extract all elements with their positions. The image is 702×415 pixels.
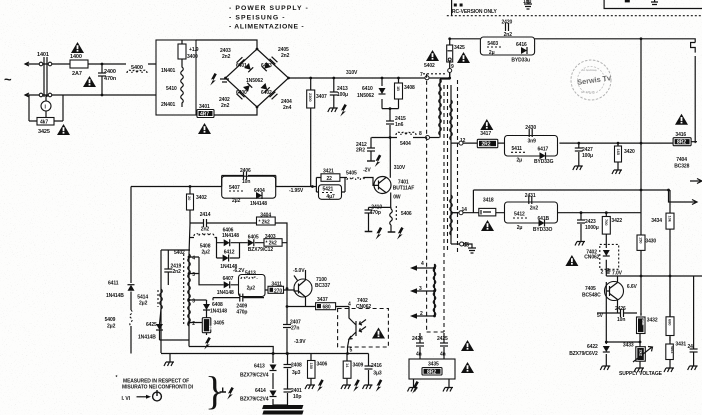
svg-text:2: 2 (192, 321, 195, 327)
svg-text:BYD33O: BYD33O (533, 227, 553, 233)
svg-text:1N5062: 1N5062 (357, 93, 374, 99)
svg-text:2426: 2426 (615, 306, 626, 312)
svg-text:3406: 3406 (317, 362, 328, 368)
svg-text:2μ2: 2μ2 (107, 324, 116, 330)
svg-text:1N4148: 1N4148 (250, 201, 267, 207)
svg-text:700: 700 (604, 219, 609, 226)
svg-text:5409: 5409 (105, 317, 116, 323)
svg-text:6411: 6411 (108, 281, 119, 287)
svg-text:5404: 5404 (400, 141, 411, 147)
svg-text:3437: 3437 (317, 297, 328, 303)
svg-text:BYD33u: BYD33u (511, 58, 530, 64)
svg-text:680: 680 (668, 319, 673, 326)
svg-text:2k2: 2k2 (639, 350, 644, 357)
svg-text:BC337: BC337 (315, 283, 330, 289)
svg-text:3μ3: 3μ3 (373, 371, 382, 377)
svg-text:2425: 2425 (437, 336, 448, 342)
svg-text:1n6: 1n6 (395, 122, 404, 128)
svg-text:1N401: 1N401 (161, 68, 176, 74)
svg-text:1N414B: 1N414B (138, 335, 156, 341)
svg-text:15: 15 (464, 242, 470, 248)
svg-text:2424: 2424 (412, 336, 423, 342)
svg-text:2430: 2430 (525, 125, 536, 131)
svg-text:6413: 6413 (254, 364, 265, 370)
svg-text:2n2: 2n2 (281, 53, 290, 59)
svg-text:8: 8 (419, 131, 422, 137)
svg-text:2n2: 2n2 (530, 205, 539, 211)
svg-text:BC548C: BC548C (582, 293, 601, 299)
svg-text:6407: 6407 (223, 276, 234, 282)
svg-text:8R2: 8R2 (427, 369, 436, 375)
svg-text:10n: 10n (242, 179, 250, 185)
svg-text:18μ: 18μ (523, 0, 531, 5)
svg-text:1N414B: 1N414B (106, 293, 124, 299)
svg-text:2414: 2414 (200, 212, 211, 218)
svg-text:2n2: 2n2 (222, 54, 231, 60)
svg-text:2n2: 2n2 (221, 103, 230, 109)
svg-text:10n: 10n (617, 317, 625, 323)
svg-text:1N4148: 1N4148 (210, 309, 227, 315)
svg-text:BZX79/C12: BZX79/C12 (248, 247, 274, 253)
svg-text:1N4148: 1N4148 (217, 290, 234, 296)
svg-text:5421: 5421 (323, 187, 334, 193)
svg-text:6403: 6403 (261, 63, 272, 69)
svg-text:6404: 6404 (254, 188, 265, 194)
svg-text:22: 22 (327, 176, 333, 182)
svg-text:- ALIMENTAZIONE -: - ALIMENTAZIONE - (229, 24, 304, 31)
svg-text:RC-VERSION ONLY: RC-VERSION ONLY (452, 9, 497, 15)
svg-text:2n4: 2n4 (283, 105, 292, 111)
svg-text:4: 4 (421, 261, 424, 267)
svg-text:0W: 0W (393, 195, 401, 201)
svg-text:6408: 6408 (212, 302, 223, 308)
svg-text:tel. 123-45: tel. 123-45 (581, 90, 595, 94)
svg-text:6B3: 6B3 (670, 346, 675, 354)
svg-text:3434: 3434 (651, 218, 662, 224)
svg-text:*: * (116, 375, 118, 381)
svg-text:1000μ: 1000μ (585, 225, 599, 231)
svg-text:3: 3 (419, 286, 422, 292)
svg-text:10k: 10k (668, 216, 673, 223)
svg-text:-1.95V: -1.95V (289, 188, 304, 194)
svg-text:2A7: 2A7 (72, 71, 82, 77)
svg-text:6405: 6405 (248, 235, 259, 241)
svg-text:5406: 5406 (401, 211, 412, 217)
svg-text:3430: 3430 (645, 239, 656, 245)
svg-text:4n: 4n (416, 351, 422, 357)
svg-text:3409: 3409 (353, 363, 364, 369)
svg-text:* 2k2: * 2k2 (266, 241, 277, 247)
svg-text:1N4148: 1N4148 (222, 233, 239, 239)
svg-text:270: 270 (274, 288, 282, 294)
svg-text:1N5062: 1N5062 (246, 78, 263, 84)
svg-text:470p: 470p (370, 210, 381, 216)
svg-text:SUPPLY VOLTAGE: SUPPLY VOLTAGE (619, 371, 663, 377)
svg-text:CN062: CN062 (356, 304, 371, 310)
svg-text:6412: 6412 (224, 249, 235, 255)
svg-text:2416: 2416 (371, 363, 382, 369)
svg-text:* 2k2: * 2k2 (259, 220, 270, 226)
svg-text:2406: 2406 (240, 168, 251, 174)
svg-text:CN062: CN062 (584, 254, 599, 260)
svg-text:2μ: 2μ (517, 225, 523, 231)
svg-text:3μ3: 3μ3 (292, 370, 301, 376)
svg-text:6401: 6401 (236, 63, 247, 69)
svg-text:7404: 7404 (676, 157, 687, 163)
svg-text:3418: 3418 (483, 198, 494, 204)
svg-text:BUT11AF: BUT11AF (393, 186, 415, 192)
svg-text:2μ2: 2μ2 (139, 301, 148, 307)
svg-text:3432: 3432 (647, 318, 658, 324)
svg-text:3n9: 3n9 (528, 138, 537, 144)
svg-text:5413: 5413 (245, 271, 256, 277)
svg-text:2n2: 2n2 (201, 227, 210, 233)
svg-text:3405: 3405 (214, 321, 225, 327)
svg-text:6402: 6402 (261, 90, 272, 96)
svg-text:3435: 3435 (428, 362, 439, 368)
svg-text:470n: 470n (104, 76, 117, 82)
svg-text:6410: 6410 (362, 86, 373, 92)
svg-text:5412: 5412 (514, 212, 525, 218)
svg-text:310V: 310V (346, 70, 358, 76)
svg-text:MISURATO NEI CONFRONTI DI: MISURATO NEI CONFRONTI DI (122, 385, 194, 391)
svg-text:5V: 5V (597, 313, 604, 319)
svg-text:3416: 3416 (675, 132, 686, 138)
svg-text:3400: 3400 (187, 54, 198, 60)
svg-text:}: } (205, 368, 224, 413)
svg-text:~: ~ (4, 72, 12, 87)
svg-text:5405: 5405 (346, 171, 357, 177)
svg-text:3402: 3402 (196, 195, 207, 201)
svg-text:2n2: 2n2 (173, 269, 182, 275)
svg-text:2μ2: 2μ2 (232, 198, 241, 204)
svg-text:2μ2: 2μ2 (247, 285, 256, 291)
svg-text:3425: 3425 (38, 129, 50, 135)
svg-text:4k7: 4k7 (40, 120, 48, 126)
svg-text:2408: 2408 (291, 363, 302, 369)
svg-text:3431: 3431 (675, 341, 686, 347)
svg-text:8R2: 8R2 (677, 140, 686, 146)
svg-text:3420: 3420 (624, 149, 635, 155)
svg-text:165: 165 (616, 149, 621, 156)
svg-text:2: 2 (420, 311, 423, 317)
svg-text:-5.0V: -5.0V (293, 268, 305, 274)
svg-text:BZX79/C6V2: BZX79/C6V2 (569, 351, 598, 357)
svg-text:3425: 3425 (454, 45, 465, 51)
svg-text:6422: 6422 (587, 344, 598, 350)
svg-text:I. VI: I. VI (122, 396, 131, 402)
svg-text:+1.9: +1.9 (189, 47, 199, 53)
svg-text:310V: 310V (394, 165, 406, 171)
svg-text:2N401: 2N401 (161, 102, 176, 108)
svg-text:2μ: 2μ (517, 157, 523, 163)
svg-text:3422: 3422 (611, 218, 622, 224)
svg-text:-3.9V: -3.9V (294, 339, 306, 345)
svg-text:5403: 5403 (487, 41, 498, 47)
svg-text:1400: 1400 (70, 54, 82, 60)
svg-text:470p: 470p (236, 309, 247, 315)
svg-text:ul. testowa: ul. testowa (582, 68, 597, 72)
svg-text:BZX79/C2V4: BZX79/C2V4 (240, 397, 269, 403)
svg-text:4R7: 4R7 (200, 112, 209, 118)
svg-text:2: 2 (601, 269, 604, 275)
svg-text:3417: 3417 (480, 131, 491, 137)
svg-text:5410: 5410 (166, 86, 177, 92)
svg-text:2420: 2420 (502, 20, 513, 26)
svg-text:680: 680 (323, 305, 331, 311)
svg-text:5411: 5411 (512, 146, 523, 152)
svg-text:150: 150 (639, 237, 644, 244)
svg-text:2R2: 2R2 (356, 148, 365, 154)
svg-text:-2V: -2V (363, 167, 371, 173)
svg-text:4μ7: 4μ7 (326, 194, 335, 200)
svg-text:7405: 7405 (585, 286, 596, 292)
svg-text:5407: 5407 (229, 185, 240, 191)
svg-text:3407: 3407 (316, 94, 327, 100)
svg-text:6416: 6416 (516, 42, 527, 48)
svg-text:5: 5 (350, 348, 353, 354)
svg-text:2μ2: 2μ2 (202, 250, 211, 256)
svg-text:100μ: 100μ (337, 92, 348, 98)
svg-text:3408: 3408 (404, 85, 415, 91)
svg-text:6414: 6414 (255, 388, 266, 394)
svg-text:3433: 3433 (623, 343, 634, 349)
svg-text:- POWER SUPPLY -: - POWER SUPPLY - (229, 5, 309, 12)
svg-text:7: 7 (420, 72, 423, 78)
svg-text:- SPEISUNG -: - SPEISUNG - (229, 15, 286, 22)
svg-text:BC328: BC328 (674, 164, 689, 170)
svg-text:2R2: 2R2 (482, 142, 491, 148)
svg-text:2431: 2431 (525, 193, 536, 199)
svg-text:-6.2V: -6.2V (233, 268, 245, 274)
svg-text:1B: 1B (396, 86, 401, 91)
svg-text:BYD33G: BYD33G (534, 159, 554, 165)
svg-text:2μ: 2μ (489, 50, 495, 56)
svg-text:150: 150 (309, 363, 314, 370)
svg-text:100μ: 100μ (582, 153, 593, 159)
svg-text:2400: 2400 (104, 69, 116, 75)
svg-text:6417: 6417 (538, 146, 549, 152)
svg-text:5402: 5402 (424, 63, 435, 69)
svg-text:BZX79/C2V4: BZX79/C2V4 (240, 373, 269, 379)
svg-text:2300: 2300 (308, 93, 313, 102)
svg-text:4n: 4n (440, 351, 446, 357)
svg-text:27n: 27n (291, 326, 299, 332)
svg-text:10k: 10k (641, 319, 646, 326)
svg-text:6425: 6425 (146, 322, 157, 328)
svg-text:6.6V: 6.6V (627, 284, 638, 290)
svg-text:10p: 10p (293, 394, 301, 400)
